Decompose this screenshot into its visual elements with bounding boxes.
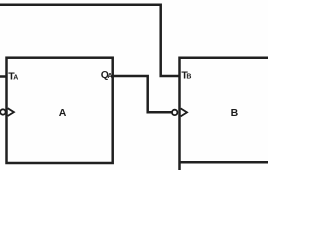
wire clock-to-TB top run [0, 5, 180, 76]
clock bubble B [172, 110, 177, 115]
svg-text:B: B [186, 74, 191, 81]
flip-flop B body [180, 58, 269, 170]
svg-text:A: A [13, 74, 18, 81]
wire TA input stub [0, 75, 7, 78]
svg-text:A: A [59, 107, 67, 119]
wire QA to clock B [113, 76, 172, 112]
svg-text:B: B [231, 107, 239, 119]
svg-text:A: A [108, 73, 113, 80]
clock bubble A [0, 109, 5, 114]
clock wedge A [8, 108, 14, 116]
clock wedge B [181, 108, 187, 116]
flip-flop A body [7, 58, 113, 163]
